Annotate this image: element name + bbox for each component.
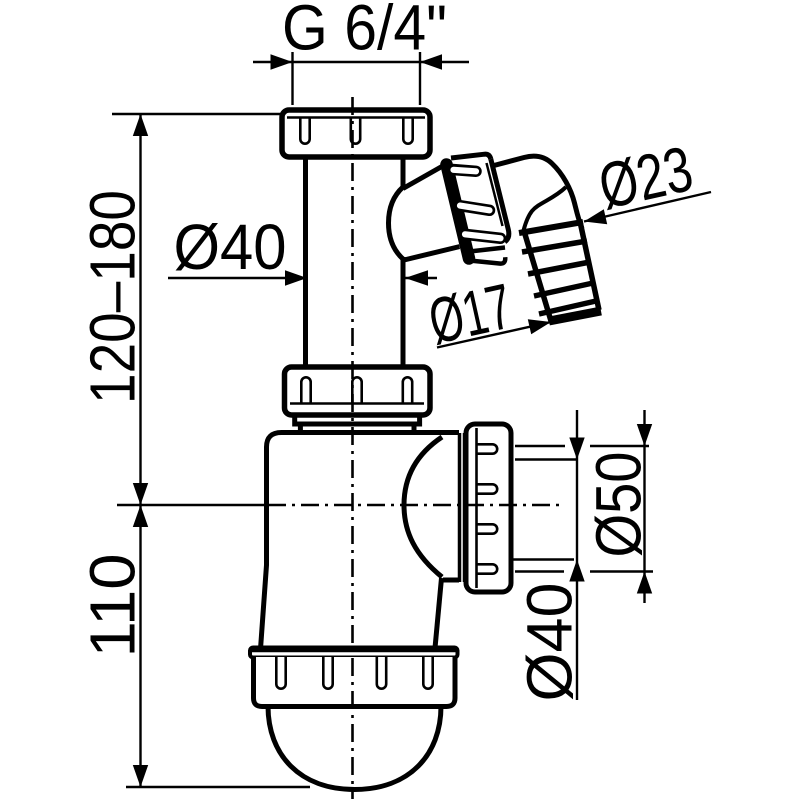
node: collar under middle nut [295,415,420,424]
node: d50 top arrow [637,424,652,446]
wire: diameter 40 right dimension line [576,410,578,700]
wire: inlet elbow S transition curve [524,187,567,231]
wire: pipe right wall upper [401,157,406,189]
wire: pipe left wall [303,157,308,367]
capacitor: top nut G6/4 [282,110,430,157]
svg-text:G 6/4": G 6/4" [282,0,447,64]
wire: right extension line d50 top [515,445,565,447]
wire: diameter 17 leader line [437,322,551,348]
wire: middle extension line [117,504,268,506]
node: top dim right arrow [420,54,442,69]
node: top dim left arrow [271,54,293,69]
capacitor: bottom cup nut [254,657,456,707]
capacitor: middle nut [285,367,431,415]
capacitor: outlet nut right [466,424,511,592]
capacitor: inlet nut side band [447,165,470,259]
resistor: barb rib 4 [534,283,593,296]
wire: outlet axis center line [268,504,562,507]
wire: outlet bottom edge [443,578,459,583]
resistor: barb rib 2 [522,241,587,252]
wire: inlet nut right inner line [487,163,503,226]
wire: inlet nut bottom edge inner [465,248,505,253]
wire: diameter 50 dimension line [643,410,645,603]
capacitor: bottom cup ring [250,648,458,658]
wire: diameter 40 dimension line left part [168,277,307,279]
wire: inlet nut bottom rim [467,257,505,263]
svg-text:120–180: 120–180 [77,190,149,404]
svg-text:Ø50: Ø50 [583,452,655,558]
wire: bottom extension line [126,786,310,788]
wire: right extension line d40 bottom [513,558,574,560]
svg-text:110: 110 [77,554,149,658]
transistor: bottom dome [268,706,441,790]
wire: inlet nut right edge [491,159,509,242]
wire: top extension line right [419,52,421,105]
node: skirt band under collar [300,424,414,433]
wire: body right wall lower [435,578,442,648]
transistor: siphon body outline [261,433,460,650]
node: d40 right top arrow [569,438,584,460]
wire: vertical center axis line [351,97,354,799]
node: diameter 40 left arrow [285,270,307,285]
wire: inlet stub top edge [403,163,448,189]
capacitor: inlet nut face fill [445,154,509,262]
node: diameter 40 right arrow [405,270,428,286]
node: outlet washer lines [458,433,462,582]
node: inlet nut slot C [464,234,501,238]
wire: diameter 23 leader line [584,192,711,222]
node: diameter 17 arrow [528,319,551,334]
wire: pipe right wall lower [401,257,406,367]
node: d40 right bottom arrow [569,560,584,582]
wire: top extension line left [291,52,293,105]
transistor: inlet elbow outline [492,156,582,228]
wire: barb right edge [580,222,599,311]
wire: diameter 40 dimension line right part [405,277,437,279]
node: diameter 23 arrow [584,209,607,224]
node: left dim top arrow [133,114,148,136]
resistor: barb flange rib [519,222,583,233]
svg-text:Ø40: Ø40 [174,211,287,283]
svg-text:Ø17: Ø17 [422,270,518,358]
wire: right extension line d40 top [515,458,578,460]
wire: body bell curve [404,437,442,577]
node: d50 bottom arrow [637,572,652,594]
node: inlet nut slot A [453,170,477,172]
wire: inlet socket bell on pipe [389,187,404,259]
diode: hose barb connector [519,222,601,322]
svg-text:Ø40: Ø40 [514,583,586,702]
node: left dim middle up arrow [133,505,148,527]
wire: top dimension line [253,61,469,63]
wire: barb left edge [524,231,551,321]
wire: right extension line d50 bottom [515,570,564,572]
wire: left extension line top [112,113,282,115]
svg-text:Ø23: Ø23 [592,132,698,222]
resistor: barb end cap [549,311,601,321]
node: left dim bottom arrow [133,765,148,787]
resistor: barb rib 5 [539,301,596,314]
resistor: barb rib 3 [528,262,590,274]
node: left dim middle down arrow [133,483,148,505]
node: inlet nut slot B [459,206,490,211]
wire: inlet stub bottom edge [402,246,462,261]
wire: left vertical dimension line [139,114,141,787]
wire: inlet nut top edge [451,154,491,159]
